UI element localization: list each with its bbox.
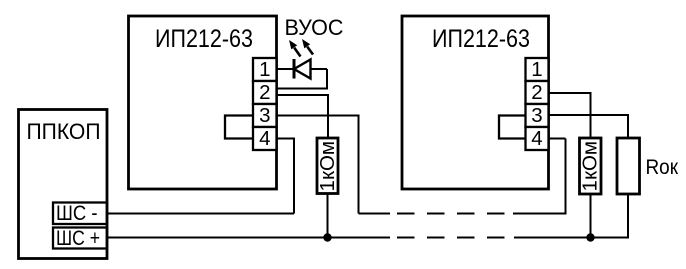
svg-text:3: 3 [259,104,270,127]
detector 1 terminal 1 [253,58,277,81]
svg-text:1кОм: 1кОм [580,141,602,192]
detector 2 terminal 1 [526,58,549,81]
wire terminal 1 to LED [277,68,328,70]
wire terminal 3 right and down [277,116,359,214]
wire ШС- from panel to detector 1 terminal 4 [107,213,294,215]
junction node at R2 bottom [586,233,594,241]
detector 2 terminal 4 [526,127,549,150]
resistor R1 1кОм body [317,138,338,194]
LED VD1 ВУОС: cathode bar [293,59,296,79]
wire lower line solid to Rок bottom [514,194,628,238]
svg-text:ВУОС: ВУОС [285,15,344,40]
detector 2 jumper bracket terminals 3-4 [499,116,526,139]
wire terminal 2 to resistor R1 [277,95,329,138]
wire LED loop right side down to terminal 2 [277,69,328,89]
wire R2 bottom lead [590,194,592,238]
junction node at R1 bottom [323,233,331,241]
svg-text:1кОм: 1кОм [317,141,339,192]
detector 2 terminal 3 [526,104,549,127]
detector 1 box ИП212-63 [129,16,277,189]
LED VD1 triangle [294,60,311,79]
detector 2 box ИП212-63 [402,16,549,189]
wire terminal 4 right and down to ШС- line [277,139,295,214]
resistor Rок body [617,138,640,194]
detector 1 terminal 3 [253,104,277,127]
svg-text:4: 4 [531,127,542,150]
svg-text:Rок: Rок [646,156,679,179]
svg-text:ИП212-63: ИП212-63 [432,25,530,53]
wire detector 2 terminal 4 stub [549,138,566,140]
svg-text:1: 1 [259,58,270,81]
wire ШС+ from panel, solid run [107,237,390,239]
svg-text:ИП212-63: ИП212-63 [155,25,253,53]
svg-text:4: 4 [259,127,270,150]
svg-text:ППКОП: ППКОП [27,119,101,144]
wire dashed segment lower line [397,237,514,239]
detector 1 terminal 2 [253,81,277,104]
wire upper line solid to detector 2 terminal 4 [513,139,566,214]
terminal ШС- box [53,203,107,225]
svg-text:2: 2 [259,81,270,104]
wire R1 bottom lead to ШС+ line [327,194,329,238]
LED arrow 2 [302,39,313,55]
terminal ШС+ box [53,228,107,249]
LED arrow 1 [289,40,301,57]
wire dashed segment upper line [397,213,513,215]
wire detector 2 terminal 3 to Rок top [549,115,629,138]
wire detector 2 terminal 2 to resistor R2 [549,93,591,138]
control panel box ППКОП [19,110,108,259]
svg-text:ШС +: ШС + [56,227,100,250]
svg-text:ШС -: ШС - [56,202,98,225]
detector 1 terminal 4 [253,127,277,150]
detector 1 jumper bracket terminals 3-4 [225,116,253,139]
svg-text:1: 1 [531,58,542,81]
svg-text:3: 3 [531,104,542,127]
detector 2 terminal 2 [526,81,549,104]
svg-text:2: 2 [531,81,542,104]
wire ШС- continuation solid then dashed [359,213,391,215]
resistor R2 1кОм body [580,138,602,194]
